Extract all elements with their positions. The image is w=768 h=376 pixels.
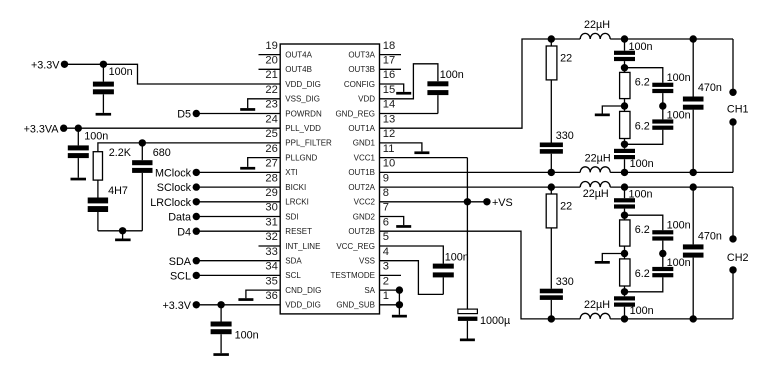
wire CH2 right sub-branch bottom: [625, 277, 663, 292]
node junction pin2: [396, 286, 403, 293]
node junction 680/pin25: [139, 139, 146, 146]
svg-text:100n: 100n: [629, 41, 653, 53]
node junction VCC2/+VS rail: [464, 198, 471, 205]
node SCL terminal: [170, 271, 200, 283]
capacitor C2 100n: [68, 128, 108, 178]
svg-text:OUT2B: OUT2B: [348, 227, 375, 236]
resistor R4 6.2: [620, 106, 650, 144]
resistor R2 22: [546, 39, 572, 143]
node CH1 mid bottom: [621, 169, 628, 176]
svg-text:SCL: SCL: [285, 271, 301, 280]
svg-text:TESTMODE: TESTMODE: [331, 271, 375, 280]
ground pin12 GND1: [380, 143, 430, 154]
node junction +3.3VA/C2: [75, 125, 82, 132]
wire CH2 output bottom rise: [732, 270, 734, 319]
resistor R1 2.2K: [93, 147, 132, 180]
svg-text:VSS: VSS: [359, 257, 375, 266]
svg-text:6: 6: [383, 216, 389, 228]
node MClock terminal: [155, 168, 200, 180]
node SClock terminal: [157, 182, 200, 194]
svg-text:GND1: GND1: [353, 139, 376, 148]
wire +3.3V to pin21 VDD_DIG: [65, 64, 281, 84]
wire pin11 VCC1: [380, 157, 468, 159]
inductor L1 22uH CH1 top: [580, 19, 610, 39]
wire SA/GND_SUB vertical: [398, 290, 400, 315]
node D4 terminal: [177, 226, 200, 238]
node junction PLL ground: [119, 227, 126, 234]
svg-text:22: 22: [560, 53, 572, 65]
svg-text:XTI: XTI: [285, 168, 297, 177]
op-amp U1 IC body 36-pin: [280, 44, 379, 314]
svg-text:1000µ: 1000µ: [480, 315, 510, 327]
node CH2 right j: [659, 250, 666, 257]
wire pin6 OUT2B riser to CH2 bottom rail: [380, 231, 581, 319]
node CH1 rail-A top: [548, 35, 555, 42]
wire pin32 stub: [259, 245, 281, 247]
capacitor C19 470n: [683, 187, 722, 319]
svg-text:100n: 100n: [109, 66, 133, 78]
capacitor C20 1000u electrolytic: [458, 309, 510, 338]
node CH1 470n bottom: [690, 169, 697, 176]
capacitor C6 100n: [427, 69, 463, 113]
ground pin26 PLLGND: [240, 158, 280, 170]
capacitor C8 330: [540, 130, 574, 173]
svg-text:35: 35: [265, 275, 277, 287]
wire +VS vertical rail: [466, 158, 468, 310]
node D5 terminal: [177, 109, 200, 121]
svg-text:36: 36: [265, 290, 277, 302]
node CH2 mid bottom: [621, 315, 628, 322]
svg-text:PPL_FILTER: PPL_FILTER: [285, 139, 332, 148]
svg-text:BICKI: BICKI: [285, 183, 306, 192]
node CH1 mid j2: [621, 102, 628, 109]
pin labels left side U1: [285, 50, 332, 309]
svg-text:4H7: 4H7: [108, 185, 128, 197]
svg-text:31: 31: [265, 216, 277, 228]
svg-text:100n: 100n: [629, 188, 653, 200]
svg-text:GND_REG: GND_REG: [335, 109, 375, 118]
node CH2 mid j3: [621, 288, 628, 295]
ground pin7 GND2: [380, 217, 412, 228]
svg-text:470n: 470n: [698, 231, 722, 243]
wire CH2 output top drop: [732, 187, 734, 239]
svg-text:29: 29: [265, 187, 277, 199]
svg-text:20: 20: [265, 55, 277, 67]
svg-text:22: 22: [265, 84, 277, 96]
node SDA terminal: [169, 256, 200, 268]
wire Data to pin30 SDI: [196, 216, 280, 218]
svg-text:22: 22: [560, 201, 572, 213]
node CH2 470n top: [690, 183, 697, 190]
wire pin17 stub: [380, 68, 402, 70]
svg-text:6.2: 6.2: [635, 121, 650, 133]
svg-text:LRCKI: LRCKI: [285, 198, 309, 207]
wire pin10 OUT1B / CH1 bottom rail: [380, 171, 734, 173]
svg-text:GND_SUB: GND_SUB: [336, 301, 375, 310]
svg-text:9: 9: [383, 172, 389, 184]
wire CH1 output bottom rise: [732, 122, 734, 172]
svg-text:2: 2: [383, 275, 389, 287]
svg-text:+3.3VA: +3.3VA: [24, 123, 60, 135]
resistor R3 6.2: [620, 68, 650, 106]
node CH1 470n top: [690, 35, 697, 42]
node CH2 470n bottom: [690, 315, 697, 322]
resistor R5 22: [546, 187, 572, 289]
svg-text:SClock: SClock: [157, 182, 192, 194]
svg-text:25: 25: [265, 128, 277, 140]
svg-text:100n: 100n: [445, 251, 469, 263]
svg-text:SDI: SDI: [285, 212, 298, 221]
node CH2 mid top: [621, 183, 628, 190]
svg-text:100n: 100n: [667, 110, 691, 122]
svg-text:CND_DIG: CND_DIG: [285, 286, 321, 295]
svg-text:330: 330: [556, 130, 574, 142]
wire pin9 OUT2A / CH2 top rail: [380, 186, 734, 188]
svg-text:32: 32: [265, 231, 277, 243]
node junction pin1: [396, 301, 403, 308]
inductor L5 4H7: [88, 180, 128, 231]
capacitor C11 100n: [652, 72, 690, 106]
svg-text:26: 26: [265, 143, 277, 155]
ground below C2: [71, 178, 87, 181]
svg-text:22µH: 22µH: [585, 152, 611, 164]
svg-text:6.2: 6.2: [635, 268, 650, 280]
svg-text:D4: D4: [177, 226, 191, 238]
capacitor C10 100n: [614, 144, 654, 172]
wire +3.3V to pin36 VDD_DIG: [196, 304, 280, 306]
pin numbers left 19-36: [265, 40, 277, 302]
svg-text:11: 11: [383, 143, 395, 155]
svg-text:+VS: +VS: [492, 197, 513, 209]
capacitor C1 100n: [93, 64, 133, 113]
wire SClock to pin28 BICKI: [196, 186, 280, 188]
wire pin18 stub: [380, 54, 402, 56]
node CH1 right j: [659, 102, 666, 109]
wire pin19 stub: [259, 54, 281, 56]
node CH2 mid j1: [621, 212, 628, 219]
wire pin8 VCC2 to +VS: [380, 201, 487, 203]
wire SDA to pin33: [196, 260, 280, 262]
svg-text:34: 34: [265, 261, 277, 273]
svg-text:OUT1A: OUT1A: [348, 124, 375, 133]
svg-text:SDA: SDA: [285, 257, 302, 266]
svg-text:VDD_DIG: VDD_DIG: [285, 80, 321, 89]
wire pin1 GND_SUB stub: [380, 304, 400, 306]
node CH1 terminal minus: [729, 118, 736, 125]
svg-text:OUT4B: OUT4B: [285, 65, 312, 74]
node CH1 mid j1: [621, 64, 628, 71]
ground pin16 CONFIG: [380, 84, 412, 95]
node CH1 rail-A bottom: [548, 169, 555, 176]
wire CH1 output top drop: [732, 39, 734, 92]
svg-text:2.2K: 2.2K: [109, 147, 132, 159]
svg-text:RESET: RESET: [285, 227, 312, 236]
svg-text:VDD: VDD: [358, 95, 375, 104]
svg-text:33: 33: [265, 246, 277, 258]
svg-text:VDD_DIG: VDD_DIG: [285, 301, 321, 310]
wire SCL to pin34: [196, 274, 280, 276]
node LRClock terminal: [150, 197, 200, 209]
wire MClock to pin27 XTI: [196, 171, 280, 173]
svg-text:12: 12: [383, 128, 395, 140]
capacitor C16 100n: [614, 292, 654, 319]
svg-text:OUT3B: OUT3B: [348, 65, 375, 74]
svg-text:330: 330: [556, 276, 574, 288]
svg-text:PLL_VDD: PLL_VDD: [285, 124, 321, 133]
wire pin3 stub: [380, 274, 402, 276]
wire PLL network bottom: [98, 230, 142, 232]
inductor L4 22uH CH2 bottom: [580, 299, 610, 319]
svg-text:CH2: CH2: [727, 252, 749, 264]
svg-text:14: 14: [383, 99, 395, 111]
node CH2 terminal minus: [729, 266, 736, 273]
node CH1 mid top: [621, 35, 628, 42]
svg-text:LRClock: LRClock: [150, 197, 191, 209]
svg-text:+3.3V: +3.3V: [31, 59, 60, 71]
svg-text:22µH: 22µH: [584, 19, 610, 31]
svg-text:INT_LINE: INT_LINE: [285, 242, 320, 251]
capacitor C7 100n: [433, 251, 469, 294]
svg-text:30: 30: [265, 202, 277, 214]
inductor L2 22uH CH1 bottom: [580, 152, 610, 172]
node +3.3V bottom terminal: [162, 300, 200, 312]
svg-text:680: 680: [153, 147, 171, 159]
ground pin22 VSS_DIG: [240, 99, 280, 111]
svg-text:5: 5: [383, 231, 389, 243]
inductor L3 22uH CH2 top: [580, 182, 610, 200]
ground below C5: [213, 353, 229, 356]
resistor R7 6.2: [620, 254, 650, 292]
svg-text:6.2: 6.2: [635, 76, 650, 88]
capacitor C13 470n: [683, 39, 722, 172]
svg-text:VSS_DIG: VSS_DIG: [285, 95, 320, 104]
wire CH1 top rail: [551, 38, 733, 40]
svg-text:3: 3: [383, 261, 389, 273]
svg-text:8: 8: [383, 187, 389, 199]
svg-text:100n: 100n: [667, 257, 691, 269]
capacitor C3 680: [132, 143, 171, 231]
node +3.3V top terminal: [31, 59, 68, 71]
svg-text:VCC2: VCC2: [354, 198, 376, 207]
svg-text:GND2: GND2: [353, 212, 376, 221]
wire pin2 SA stub: [380, 289, 400, 291]
svg-text:100n: 100n: [84, 130, 108, 142]
svg-text:MClock: MClock: [155, 168, 192, 180]
wire LRClock to pin29 LRCKI: [196, 201, 280, 203]
ground SA/GND_SUB: [392, 315, 407, 318]
svg-text:28: 28: [265, 172, 277, 184]
svg-text:24: 24: [265, 113, 277, 125]
svg-text:100n: 100n: [667, 220, 691, 232]
svg-text:19: 19: [265, 40, 277, 52]
node CH2 rail-A top: [548, 183, 555, 190]
svg-text:1: 1: [383, 290, 389, 302]
svg-text:OUT3A: OUT3A: [348, 50, 375, 59]
svg-text:CONFIG: CONFIG: [344, 80, 375, 89]
wire pin20 stub: [259, 68, 281, 70]
svg-text:27: 27: [265, 158, 277, 170]
node CH2 mid j2: [621, 250, 628, 257]
svg-text:23: 23: [265, 99, 277, 111]
svg-text:100n: 100n: [667, 72, 691, 84]
ground PLL network: [115, 231, 131, 241]
node +3.3VA terminal: [24, 123, 68, 135]
svg-text:100n: 100n: [440, 69, 464, 81]
wire pin15 VDD to C6: [380, 64, 438, 99]
svg-text:17: 17: [383, 55, 395, 67]
node +VS terminal: [483, 197, 513, 209]
svg-text:OUT2A: OUT2A: [348, 183, 375, 192]
svg-text:OUT4A: OUT4A: [285, 50, 312, 59]
ground CH1 mid: [595, 106, 625, 116]
svg-text:15: 15: [383, 84, 395, 96]
wire pin5 VCC_REG to C7: [380, 246, 444, 264]
svg-text:SA: SA: [364, 286, 375, 295]
svg-text:OUT1B: OUT1B: [348, 168, 375, 177]
resistor R6 6.2: [620, 215, 650, 253]
node Data terminal: [168, 212, 200, 224]
svg-text:7: 7: [383, 202, 389, 214]
ground below 1000u: [460, 339, 475, 342]
svg-text:4: 4: [383, 246, 389, 258]
svg-text:470n: 470n: [698, 82, 722, 94]
wire CH2 right sub-branch top: [625, 215, 663, 230]
wire pin14 GND_REG: [380, 113, 438, 115]
node junction +3.3V/C5: [217, 301, 224, 308]
capacitor C18 100n: [652, 254, 690, 278]
svg-text:VCC1: VCC1: [354, 153, 376, 162]
svg-text:21: 21: [265, 69, 277, 81]
svg-text:22µH: 22µH: [584, 299, 610, 311]
capacitor C9 100n: [614, 39, 653, 68]
capacitor C12 100n: [652, 106, 690, 130]
svg-text:D5: D5: [177, 109, 191, 121]
svg-text:22µH: 22µH: [583, 188, 609, 200]
wire C7 to pin4 VSS: [380, 261, 444, 295]
svg-text:18: 18: [383, 40, 395, 52]
svg-text:6.2: 6.2: [635, 224, 650, 236]
svg-text:VCC_REG: VCC_REG: [336, 242, 375, 251]
svg-text:POWRDN: POWRDN: [285, 109, 322, 118]
node CH2 rail-A bottom: [548, 315, 555, 322]
svg-text:SCL: SCL: [170, 271, 191, 283]
pin labels right side U1: [331, 50, 376, 309]
ground CH2 mid: [595, 254, 625, 264]
wire +3.3VA to pin24 PLL_VDD: [64, 127, 281, 129]
svg-text:10: 10: [383, 158, 395, 170]
svg-text:PLLGND: PLLGND: [285, 153, 317, 162]
wire CH1 right sub-branch top: [625, 68, 663, 83]
svg-text:16: 16: [383, 69, 395, 81]
svg-text:SDA: SDA: [169, 256, 192, 268]
capacitor C17 100n: [652, 220, 690, 254]
ground pin35 CND_DIG: [238, 290, 280, 301]
node CH2 terminal plus: [729, 235, 736, 242]
wire D4 to pin31 RESET: [196, 230, 280, 232]
svg-text:100n: 100n: [235, 329, 259, 341]
svg-text:100n: 100n: [630, 158, 654, 170]
capacitor C14 330: [540, 276, 574, 319]
node junction +3.3V/C1: [100, 61, 107, 68]
node CH1 terminal plus: [729, 89, 736, 96]
wire pin13 OUT1A riser to CH1 top rail: [380, 39, 552, 128]
node CH1 mid j3: [621, 141, 628, 148]
wire CH1 right sub-branch bottom: [625, 130, 663, 145]
capacitor C15 100n: [614, 187, 653, 215]
svg-text:100n: 100n: [630, 305, 654, 317]
wire pin25 PPL_FILTER to PLL network: [98, 143, 280, 152]
pin numbers right 18-1: [383, 40, 395, 302]
wire CH2 bottom rail right part: [610, 318, 733, 320]
svg-text:CH1: CH1: [727, 104, 749, 116]
svg-text:13: 13: [383, 113, 395, 125]
capacitor C5 100n: [211, 305, 259, 353]
ground below C1: [96, 113, 112, 116]
svg-text:Data: Data: [168, 212, 191, 224]
svg-text:+3.3V: +3.3V: [162, 300, 191, 312]
wire D5 to pin23 POWRDN: [196, 113, 280, 115]
